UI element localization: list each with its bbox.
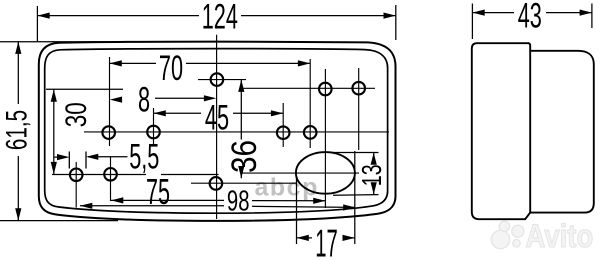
arrow 30 up [51,89,57,101]
hole H4 mid-left-1 [102,126,115,139]
H9 vertical extension (75 left) [110,156,112,201]
hole H9 bottom-left-2 [104,168,117,181]
svg-text:45: 45 [205,99,229,137]
dim 43 extension right [591,4,593,29]
svg-text:75: 75 [146,172,170,212]
bottom-left pair crosshair horizontal [52,174,219,176]
arrow 36 down [238,166,244,178]
watermark avito circles [491,221,524,249]
arrow 13 down [371,182,377,194]
arrow 124 right [384,13,396,19]
mounting holes [70,73,365,193]
arrow 5,5 right-pointing [57,154,69,160]
oval cutout [296,152,355,194]
side view housing outline [530,51,594,213]
side view lens/housing divider [529,43,531,212]
arrow 17 right [343,235,355,241]
side view lens outline [472,43,530,219]
arrow 70 left [110,60,122,66]
dim 70 line [110,62,311,64]
front view outer outline [39,42,396,221]
arrow 30 down [51,162,57,174]
arrow 8 right [204,95,216,101]
arrow 17 left [297,235,309,241]
svg-text:124: 124 [202,0,238,37]
hole H8 bottom-left-1 [70,169,83,182]
dim 13 bottom extension [333,194,379,197]
dim 98 line [80,206,355,208]
H5 vertical extension (45 left) [153,108,155,146]
dim 30 line [53,89,55,174]
dim 5,5 arrow shafts and leader [55,156,128,158]
hole H1 top-center [211,73,224,86]
dim 43 line [472,12,592,14]
dim 75 line [111,199,325,201]
dim 17 extension left [296,176,298,244]
dim 36 line [240,80,242,179]
svg-text:5,5: 5,5 [129,138,159,176]
dim 124 extension right [395,5,397,40]
H7 vertical extension (70 right) [309,59,311,148]
arrow 98 left [80,203,92,209]
dim 13 top extension [330,152,379,154]
dim 61,5 line [17,42,19,221]
arrow 43 right [580,10,592,16]
H6 vertical extension (45 right) [282,103,284,147]
arrow 45 right [271,110,283,116]
arrow 61,5 down [15,208,21,220]
arrow 8 left [110,97,122,103]
arrow 70 right [298,60,310,66]
front view inner outline [45,49,388,214]
hole H7 mid-right-2 [304,126,317,139]
arrow 13 up [371,153,377,165]
arrow 36 up [238,80,244,92]
dim 43 extension left [471,4,473,40]
hole H10 bottom-center [210,177,223,190]
dim 124 extension left [36,6,38,42]
hole H6 mid-right-1 [277,126,290,139]
svg-text:30: 30 [59,102,93,127]
svg-text:43: 43 [518,0,542,36]
H4 vertical extension (70 left / 8 datum) [109,57,111,146]
arrow 98 right [343,204,355,210]
arrow 75 right [313,198,325,204]
svg-text:36: 36 [225,140,264,173]
svg-text:98: 98 [227,185,250,217]
oval horizontal centerline [242,172,360,174]
hole H2 top-right-1 [319,83,332,96]
dim 5,5 tick left [68,152,70,169]
dim 61,5 extension top [0,41,120,43]
top-right pair crosshair horizontal [242,87,376,89]
dim 17 line [297,237,355,239]
vertical centerline through H1,H10 [216,35,218,219]
svg-text:8: 8 [138,81,150,119]
dim 5,5 tick right [85,152,87,169]
svg-text:abcp: abcp [255,174,319,202]
svg-text:13: 13 [357,164,388,186]
arrow 45 left [154,110,166,116]
dim 124 line [37,15,395,17]
hole H3 top-right-2 [352,82,365,95]
H10 crosshair horizontal [191,182,297,184]
hole H5 mid-left-2 [147,126,160,139]
dim 30 top extension [46,88,123,90]
arrow 75 left [111,197,123,203]
dim 13 line [373,153,375,195]
svg-text:70: 70 [159,50,183,88]
dim 17 extension right [354,151,356,244]
arrow 124 left [37,13,49,19]
arrow 43 left [472,10,484,16]
svg-text:17: 17 [315,221,338,261]
dim 8 line [155,97,214,99]
dim 61,5 extension bottom [0,220,118,222]
arrow 5,5 left-pointing [86,154,98,160]
svg-text:61,5: 61,5 [1,110,33,150]
dim 45 line [154,112,284,114]
H3 crosshair vertical [358,68,360,150]
mid-left pair crosshair horizontal [84,131,389,133]
arrow 61,5 up [15,42,21,54]
H8 vertical extension (98 left) [75,162,77,208]
svg-text:Avito: Avito [526,219,594,254]
H2 crosshair vertical [324,69,326,208]
H1 crosshair horizontal [198,79,246,81]
